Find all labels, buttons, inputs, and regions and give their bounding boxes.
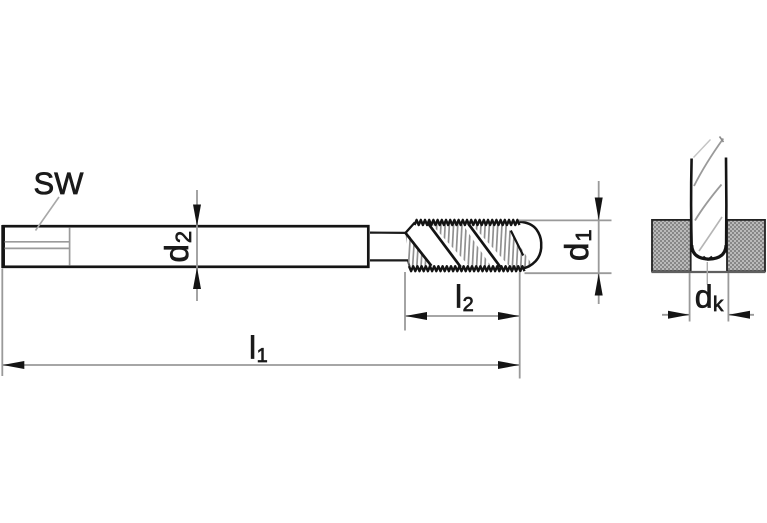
dk right extension line: [727, 273, 729, 322]
neck top line: [370, 232, 406, 234]
l1 arrow right: [498, 361, 519, 369]
label SW: [35, 172, 83, 194]
neck to chamfer joint: [408, 260, 410, 266]
d1 arrow top: [595, 198, 603, 221]
l1 arrow left: [3, 361, 25, 369]
dk arrow right (pointing left): [729, 311, 750, 319]
tip apex mark: [720, 137, 724, 143]
flute edge diagonal D (partial, near tip): [511, 231, 523, 256]
l2 arrow right: [498, 312, 519, 320]
chamfer cone upper edge: [406, 223, 415, 233]
workpiece bottom face line across hole: [652, 271, 766, 273]
leader line from SW to square: [36, 197, 60, 231]
spiral flute helix line upper: [694, 139, 723, 187]
thread crest bottom zigzag: [409, 266, 525, 271]
thread land hatch band 3 (right of flute C, to tip): [466, 222, 540, 270]
flute edge diagonal B: [428, 224, 461, 267]
dk label: [696, 284, 723, 311]
d2 dimension line: [196, 190, 198, 301]
tip silhouette top-left chamfer: [694, 140, 711, 158]
l2 arrow left: [405, 312, 427, 320]
square drive end: lower flat line: [5, 247, 70, 249]
l1 left extension line: [1, 269, 3, 377]
centre line under tap: [706, 262, 708, 285]
l2 left extension line: [404, 272, 406, 331]
workpiece left block: [652, 220, 691, 271]
thread crest top zigzag: [415, 220, 520, 225]
tap point bottom arc: [692, 245, 726, 259]
d2 arrow top: [193, 205, 201, 227]
square drive end: end line: [69, 228, 71, 265]
l1 dimension line: [2, 364, 519, 366]
spiral flute helix line lower (partial): [699, 217, 722, 251]
neck bottom line: [370, 259, 408, 261]
d1 dimension line: [598, 181, 600, 304]
d2 label: [164, 232, 191, 261]
d1 bottom extension line: [525, 272, 612, 274]
tap point nub: [703, 257, 712, 259]
dk dimension line right segment: [728, 314, 754, 316]
spiral flute helix line middle: [695, 185, 722, 221]
workpiece right block: [727, 220, 765, 271]
d1 top extension line: [519, 219, 612, 221]
d2 arrow bottom: [193, 267, 201, 289]
rounded tip outline: [520, 222, 542, 268]
flute edge diagonal A: [406, 233, 432, 266]
d1 label: [564, 230, 591, 259]
dk arrow left (pointing right): [668, 311, 689, 319]
thread land hatch band 2 (right of flute B): [426, 222, 500, 270]
shank body: [4, 226, 369, 267]
l2 dimension line: [405, 315, 520, 317]
flute edge diagonal C: [468, 224, 500, 267]
square drive end: upper flat line: [5, 241, 70, 243]
tap left edge: [690, 159, 693, 253]
l2 label: [457, 284, 473, 311]
d1 arrow bottom: [595, 273, 603, 295]
dk left extension line: [689, 273, 691, 322]
tap right edge: [725, 158, 728, 253]
l1 label: [251, 335, 267, 362]
dk dimension line left segment: [662, 314, 690, 316]
l2 / l1 right extension line: [519, 272, 521, 379]
thread land hatch band 1 (under lead chamfer): [404, 230, 436, 270]
